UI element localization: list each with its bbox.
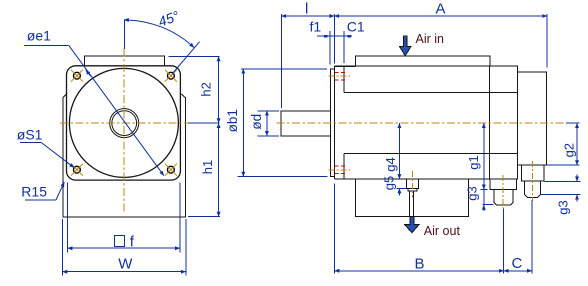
svg-text:Air out: Air out	[424, 224, 461, 238]
motor body (side view)	[334, 66, 517, 179]
svg-text:øb1: øb1	[225, 109, 240, 132]
air out fitting	[406, 179, 418, 216]
svg-text:C: C	[511, 255, 522, 272]
svg-text:C1: C1	[347, 18, 365, 34]
svg-text:f1: f1	[310, 18, 322, 34]
dimension f1	[317, 31, 352, 65]
dimension A	[334, 14, 547, 68]
bolt hole cross top-right	[165, 70, 177, 82]
svg-text:g3: g3	[465, 186, 480, 200]
dimension g5	[397, 188, 407, 195]
terminal cap on top (front view)	[85, 56, 165, 66]
center line horizontal (front view)	[60, 122, 189, 124]
leader R15	[25, 182, 64, 200]
label square-f square symbol	[114, 235, 124, 246]
svg-text:h1: h1	[200, 160, 215, 174]
dimension ød	[258, 111, 279, 136]
dimension g2	[547, 123, 580, 165]
dimension h1	[188, 123, 220, 217]
dimension g4	[398, 123, 400, 179]
dimension C	[504, 200, 532, 274]
dimension W	[62, 219, 185, 276]
bolt hole cross top-left	[71, 70, 83, 82]
bolt hole center line bottom (side view)	[329, 169, 351, 171]
hidden bolt hole bottom (red dashed)	[334, 166, 345, 174]
svg-text:Air in: Air in	[416, 32, 445, 46]
right fitting center line	[531, 161, 533, 201]
square flange (front view)	[67, 66, 181, 180]
dimension l	[281, 14, 334, 108]
left fitting center line	[502, 175, 504, 209]
inner housing lines (side view)	[344, 92, 517, 153]
leader øS1	[20, 143, 74, 168]
svg-text:g3: g3	[556, 200, 571, 214]
svg-text:A: A	[436, 1, 446, 18]
pilot disc (side view)	[331, 69, 335, 177]
left fitting (side view)	[490, 179, 516, 205]
bolt hole center line top (side view)	[329, 75, 351, 77]
dimension h2	[169, 56, 220, 123]
svg-text:g5: g5	[382, 176, 397, 190]
dimension øe1 diagonal line through bolt circle	[24, 45, 164, 175]
bolt hole top-right	[168, 72, 175, 79]
air out arrow	[405, 216, 419, 233]
svg-text:g1: g1	[466, 155, 481, 169]
bolt hole bottom-right	[168, 166, 175, 173]
right fitting (side view)	[522, 165, 545, 197]
motor housing behind flange (front view)	[63, 93, 186, 217]
air out fitting center line	[411, 171, 413, 198]
svg-text:g4: g4	[383, 157, 398, 171]
bolt hole cross bottom-right	[165, 164, 177, 176]
dimension g3 right	[541, 175, 581, 202]
dimension C1	[343, 31, 345, 63]
svg-text:l: l	[305, 1, 308, 18]
dimension 45 degrees	[124, 20, 200, 74]
rear block (side view)	[517, 72, 546, 165]
svg-text:ød: ød	[249, 114, 264, 130]
center line vertical (front view)	[123, 49, 125, 214]
svg-text:45°: 45°	[156, 7, 182, 29]
shaft hub inner circle	[112, 111, 137, 136]
bolt hole cross bottom-left	[71, 164, 83, 176]
bolt hole top-left	[74, 72, 81, 79]
flange plate (side view)	[334, 66, 355, 179]
shaft (side view)	[281, 111, 331, 136]
pilot circle øb1 (front view)	[69, 68, 178, 177]
bottom box (side view)	[356, 179, 469, 217]
shaft hub outer circle	[110, 109, 139, 138]
hidden bolt hole top (red dashed)	[334, 72, 345, 80]
svg-text:øS1: øS1	[17, 127, 43, 143]
leader line øe1	[24, 44, 68, 46]
main center line (side view)	[277, 122, 567, 124]
dimension square-f	[68, 183, 180, 253]
svg-text:g2: g2	[562, 143, 577, 157]
svg-text:h2: h2	[199, 82, 214, 96]
svg-text:W: W	[118, 256, 133, 273]
dimension øb1	[238, 69, 328, 177]
dimension g3 left	[483, 190, 494, 211]
svg-text:B: B	[414, 256, 424, 273]
top cap (side view)	[355, 56, 490, 66]
air in arrow	[399, 36, 411, 56]
svg-text:R15: R15	[21, 183, 47, 199]
dimension B	[334, 184, 503, 274]
bolt hole bottom-left	[74, 166, 81, 173]
dimension g1	[481, 123, 488, 189]
svg-text:øe1: øe1	[27, 28, 51, 44]
